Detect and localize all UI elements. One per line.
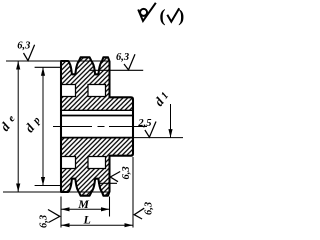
svg-text:L: L xyxy=(83,212,91,226)
svg-text:6,3: 6,3 xyxy=(121,166,132,179)
svg-text:6,3: 6,3 xyxy=(144,202,155,215)
svg-text:(: ( xyxy=(160,6,166,27)
svg-text:2,5: 2,5 xyxy=(137,118,151,129)
svg-text:6,3: 6,3 xyxy=(38,215,49,228)
svg-text:M: M xyxy=(77,197,89,211)
svg-text:6,3: 6,3 xyxy=(17,41,30,52)
svg-text:6,3: 6,3 xyxy=(116,52,129,63)
svg-text:): ) xyxy=(178,6,184,27)
